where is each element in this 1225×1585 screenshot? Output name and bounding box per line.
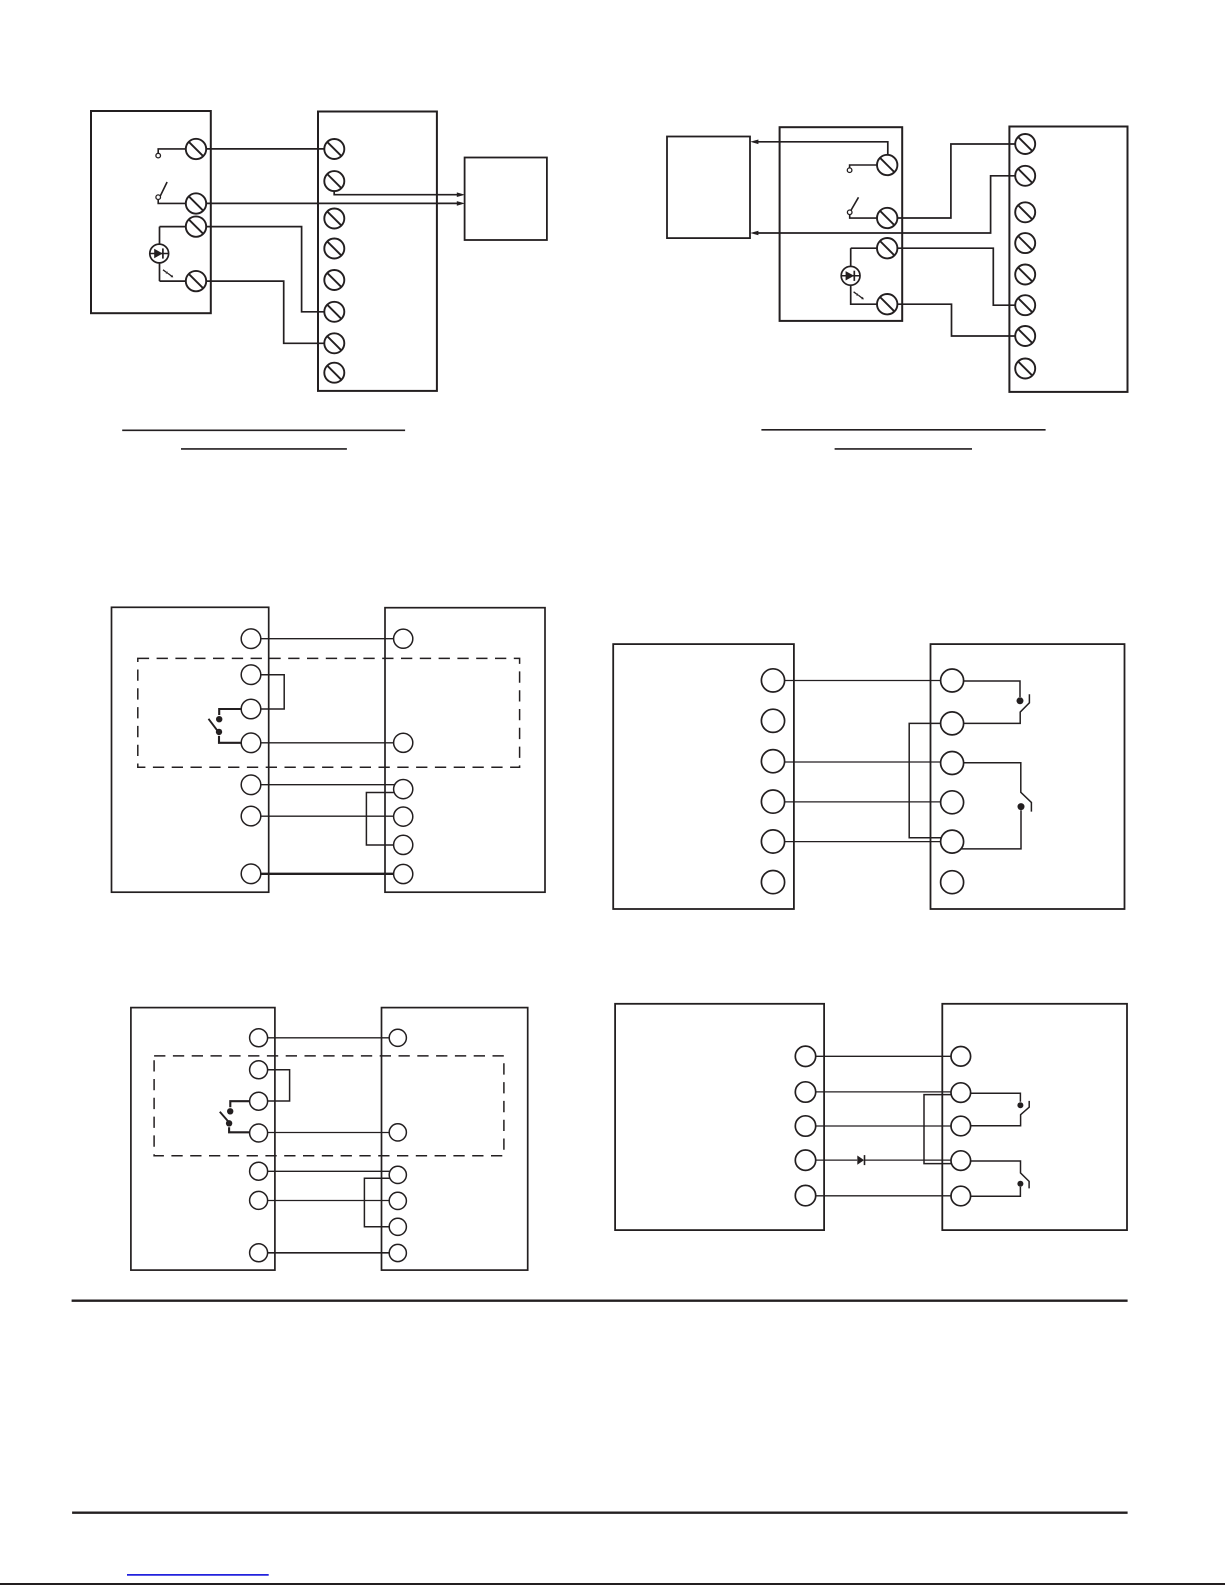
- D1 wire T2 to relay: [206, 202, 457, 204]
- screw terminal D1 subbase terminal 8: [324, 363, 344, 383]
- D2 switch SW2 pivot circle: [847, 210, 852, 215]
- screw terminal D1 subbase terminal 1: [324, 139, 344, 159]
- terminal D3 left terminal 4: [241, 733, 261, 753]
- screw terminal D1 thermostat terminal 4: [186, 271, 206, 291]
- terminal D3 right terminal 4: [394, 807, 413, 826]
- screw terminal D1 subbase terminal 5: [324, 270, 344, 290]
- D6 switch SW1 wire from R2: [971, 1093, 1021, 1102]
- D2 switch SW1 contact wire: [850, 165, 877, 168]
- D1 LED indicator: [150, 244, 169, 263]
- D3 wire L5-R3: [261, 784, 395, 786]
- screw terminal D2 wallplate terminal 6: [1015, 295, 1035, 315]
- D6 switch SW2 wire from R4 and lever: [971, 1161, 1029, 1188]
- D1 wire T4 left stub: [160, 280, 186, 282]
- D4 wire L4-R4: [785, 801, 941, 803]
- screw terminal D2 wallplate terminal 5: [1015, 265, 1035, 285]
- system control box (diagram 4): [931, 644, 1125, 909]
- D2 wire M3 to W6: [897, 248, 1015, 305]
- thermostat box (diagram 3): [112, 607, 269, 892]
- caption underline figure 1 line 1: [122, 429, 405, 431]
- D4 switch SW1 lever and wire to R2: [964, 694, 1030, 723]
- terminal D4 right terminal 5: [941, 830, 964, 853]
- D5 wire L4-R2: [268, 1132, 390, 1134]
- D6 wire L3-R3: [816, 1125, 951, 1127]
- page bottom edge bar: [0, 1583, 1225, 1585]
- D1 wire T4 to S7: [206, 281, 324, 343]
- terminal D6 right terminal 4: [951, 1151, 971, 1171]
- D6 wire L4 to diode: [816, 1159, 858, 1161]
- D4 switch SW2 wire to R5: [961, 810, 1021, 849]
- terminal D6 right terminal 2: [951, 1083, 971, 1103]
- wallplate terminal strip box (diagram 2): [1009, 127, 1127, 392]
- screw terminal D1 subbase terminal 2: [324, 171, 344, 191]
- screw terminal D2 wallplate terminal 2: [1015, 166, 1035, 186]
- D1 wire T3 left stub: [160, 226, 186, 228]
- screw terminal D2 wallplate terminal 1: [1015, 134, 1035, 154]
- D2 switch SW2 lever: [851, 197, 859, 210]
- terminal D3 right terminal 5: [394, 835, 413, 854]
- screw terminal D2 wallplate terminal 4: [1015, 233, 1035, 253]
- D2 switch SW2 wire to M2: [850, 215, 877, 219]
- D3 switch wire from L3: [219, 709, 241, 715]
- screw terminal D1 thermostat terminal 1: [186, 139, 206, 159]
- D3 wire L4-R2: [261, 742, 394, 744]
- terminal D5 left terminal 1: [250, 1029, 268, 1047]
- terminal D4 right terminal 4: [941, 791, 964, 814]
- terminal D6 right terminal 1: [951, 1047, 971, 1067]
- terminal D3 left terminal 3: [241, 699, 261, 719]
- D5 wire L1-R1: [268, 1037, 390, 1039]
- D4 wire L5-R5: [785, 841, 941, 843]
- D4 jumper R2-R5: [909, 723, 941, 837]
- terminal D4 left terminal 6: [761, 871, 784, 894]
- D4 switch SW1 wire from R1: [964, 681, 1020, 697]
- terminal D5 left terminal 7: [250, 1244, 268, 1262]
- D1 switch SW1 pivot circle: [156, 153, 161, 158]
- terminal D6 left terminal 1: [795, 1046, 815, 1066]
- D2 LED indicator: [841, 266, 860, 285]
- screw terminal D2 wallplate terminal 7: [1015, 326, 1035, 346]
- terminal D5 left terminal 4: [250, 1124, 268, 1142]
- caption underline figure 2 line 1: [761, 429, 1045, 431]
- thermostat box (diagram 4): [613, 644, 794, 909]
- terminal D4 left terminal 5: [761, 830, 784, 853]
- terminal D5 left terminal 5: [250, 1162, 268, 1180]
- D4 wire L1-R1: [785, 680, 941, 682]
- relay box W (diagram 1): [465, 158, 547, 241]
- screw terminal D1 thermostat terminal 2: [186, 193, 206, 213]
- D2 wire relay to W2: [758, 176, 1016, 233]
- D2 arrowhead long wire: [750, 231, 758, 236]
- screw terminal D2 thermostat terminal 4: [877, 294, 897, 314]
- terminal D3 right terminal 6: [394, 864, 413, 883]
- D2 LED branch upper: [850, 248, 852, 266]
- screw terminal D1 subbase terminal 6: [324, 302, 344, 322]
- D6 wire L1-R1: [816, 1055, 951, 1057]
- screw terminal D2 thermostat terminal 2: [877, 208, 897, 228]
- terminal D4 left terminal 3: [761, 750, 784, 773]
- terminal D4 right terminal 2: [941, 712, 964, 735]
- D2 wire M2 to W1: [897, 144, 1015, 218]
- screw terminal D2 wallplate terminal 8: [1015, 359, 1035, 379]
- D3 wire L7-R6 (heavy): [261, 873, 394, 875]
- horizontal rule lower: [72, 1512, 1128, 1514]
- terminal D5 left terminal 3: [250, 1092, 268, 1110]
- terminal D6 right terminal 5: [951, 1186, 971, 1206]
- D4 switch SW2 contact dot: [1018, 803, 1025, 810]
- D3 wire L1-R1: [261, 638, 394, 640]
- D5 switch wire to L4: [229, 1127, 250, 1132]
- D5 wire L7-R6: [268, 1252, 390, 1254]
- D2 switch SW1 pivot circle: [847, 168, 852, 173]
- D1 switch SW2 pivot circle: [156, 195, 161, 200]
- screw terminal D2 thermostat terminal 1: [877, 155, 897, 175]
- D2 arrowhead M1 wire: [750, 140, 758, 145]
- terminal D5 right terminal 1: [389, 1029, 406, 1046]
- terminal D3 right terminal 1: [394, 629, 413, 648]
- caption underline figure 1 line 2: [181, 448, 347, 450]
- D3 jumper R3-R5: [366, 793, 394, 846]
- D4 wire L3-R3: [785, 761, 941, 763]
- heat pump dashed enclosure (diagram 5): [154, 1056, 504, 1156]
- terminal D5 right terminal 2: [389, 1124, 406, 1141]
- D4 switch SW1 contact dot: [1017, 697, 1024, 704]
- D5 wire L6-R4: [268, 1200, 390, 1202]
- terminal D5 left terminal 6: [250, 1191, 268, 1209]
- D5 jumper R3-R5: [364, 1178, 390, 1227]
- subbase box (diagram 3): [385, 608, 545, 893]
- D6 wire L5-R5: [816, 1195, 951, 1197]
- D6 diode on wire L4-R4: [857, 1155, 864, 1165]
- terminal D4 right terminal 1: [941, 669, 964, 692]
- screw terminal D1 subbase terminal 7: [324, 333, 344, 353]
- D3 wire L6-R4: [261, 815, 394, 817]
- D3 switch wire to L4: [219, 736, 241, 743]
- terminal D3 left terminal 6: [241, 806, 261, 826]
- footer hyperlink underline: [127, 1574, 269, 1576]
- D2 wire M4 to W7: [897, 304, 1015, 336]
- terminal D3 left terminal 1: [241, 629, 261, 649]
- terminal D3 left terminal 2: [241, 665, 261, 685]
- terminal D3 left terminal 5: [241, 775, 261, 795]
- terminal D4 left terminal 2: [761, 709, 784, 732]
- D6 switch SW2 wire to R5: [971, 1187, 1021, 1197]
- subbase box (diagram 5): [382, 1008, 528, 1271]
- D1 LED light arrow mark: [163, 270, 173, 278]
- terminal D3 right terminal 3: [394, 780, 413, 799]
- D3 switch bottom contact dot: [216, 729, 222, 735]
- D1 switch SW2 wire to T2: [158, 200, 186, 204]
- D6 jumper R2-R4: [924, 1095, 952, 1164]
- D2 wire M1 up to relay: [758, 142, 888, 155]
- thermostat box (diagram 5): [131, 1008, 275, 1271]
- relay box W (diagram 2): [667, 137, 750, 239]
- terminal D5 left terminal 2: [250, 1061, 268, 1079]
- D2 wire M3 left stub: [851, 247, 877, 249]
- terminal D4 right terminal 6: [941, 871, 964, 894]
- screw terminal D1 subbase terminal 4: [324, 239, 344, 259]
- D5 wire L5-R3: [268, 1170, 390, 1172]
- heat pump dashed enclosure (diagram 3): [138, 658, 520, 767]
- terminal D5 right terminal 3: [389, 1166, 406, 1183]
- D1 LED branch lower: [159, 263, 161, 281]
- D1 switch SW1 contact wire: [158, 149, 186, 153]
- D3 jumper L2-L3: [261, 675, 284, 709]
- D2 LED light arrow mark: [854, 292, 864, 300]
- terminal D5 right terminal 6: [389, 1244, 406, 1261]
- D6 switch SW1 lever and wire to R3: [971, 1101, 1030, 1126]
- D6 wire diode to R4: [865, 1159, 951, 1161]
- caption underline figure 2 line 2: [835, 448, 972, 450]
- D4 switch SW2 wire from R3 and lever: [964, 763, 1032, 812]
- D5 switch lever: [220, 1112, 229, 1122]
- thermostat box (diagram 6): [615, 1004, 824, 1230]
- horizontal rule upper: [72, 1300, 1128, 1302]
- D6 switch SW2 contact dot: [1017, 1181, 1023, 1187]
- terminal D6 left terminal 5: [795, 1185, 815, 1205]
- D5 switch wire from L3: [230, 1101, 249, 1107]
- terminal D3 right terminal 2: [394, 733, 413, 752]
- thermostat box (diagram 1): [91, 111, 211, 313]
- D5 switch top contact dot: [227, 1108, 233, 1114]
- D1 switch SW2 lever: [159, 182, 167, 199]
- D1 LED branch upper: [159, 227, 161, 245]
- D3 switch top contact dot: [216, 716, 222, 722]
- terminal D6 left terminal 4: [795, 1150, 815, 1170]
- thermostat box (diagram 2): [780, 127, 903, 321]
- terminal D6 right terminal 3: [951, 1116, 971, 1136]
- D6 switch SW1 contact dot: [1017, 1102, 1023, 1108]
- terminal D4 left terminal 4: [761, 790, 784, 813]
- D2 LED branch lower: [851, 285, 877, 304]
- screw terminal D2 wallplate terminal 3: [1015, 202, 1035, 222]
- D1 arrowhead wire S2: [457, 192, 465, 197]
- terminal D5 right terminal 4: [389, 1192, 406, 1209]
- terminal D6 left terminal 3: [795, 1116, 815, 1136]
- D5 jumper L2-L3: [268, 1070, 290, 1101]
- system control box (diagram 6): [942, 1004, 1127, 1230]
- terminal D3 left terminal 7: [241, 864, 261, 884]
- D3 switch lever: [209, 719, 218, 732]
- D1 arrowhead wire T2: [457, 201, 465, 206]
- terminal D5 right terminal 5: [389, 1218, 406, 1235]
- D1 wire T3 to S6: [206, 227, 324, 312]
- subbase terminal strip box (diagram 1): [318, 112, 437, 391]
- D5 switch bottom contact dot: [226, 1120, 232, 1126]
- terminal D6 left terminal 2: [795, 1082, 815, 1102]
- screw terminal D1 subbase terminal 3: [324, 209, 344, 229]
- terminal D4 left terminal 1: [761, 669, 784, 692]
- D1 wire S2 stub to relay: [334, 191, 457, 195]
- D1 wire T1 to S1: [206, 148, 324, 150]
- screw terminal D1 thermostat terminal 3: [186, 216, 206, 236]
- terminal D4 right terminal 3: [941, 752, 964, 775]
- D6 wire L2-R2: [816, 1091, 952, 1093]
- screw terminal D2 thermostat terminal 3: [877, 238, 897, 258]
